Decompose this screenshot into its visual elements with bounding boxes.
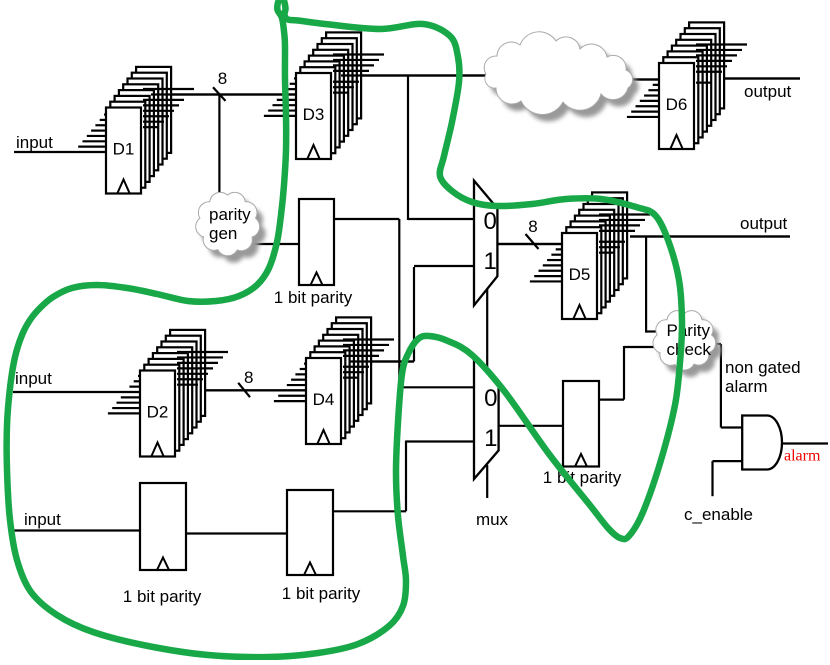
svg-text:1 bit parity: 1 bit parity — [543, 468, 622, 487]
svg-text:output: output — [740, 214, 788, 233]
svg-text:parity: parity — [209, 205, 251, 224]
svg-text:alarm: alarm — [784, 448, 821, 465]
svg-text:1 bit parity: 1 bit parity — [123, 587, 202, 606]
svg-text:output: output — [744, 82, 792, 101]
svg-text:input: input — [24, 510, 61, 529]
svg-text:D3: D3 — [303, 105, 325, 124]
svg-text:c_enable: c_enable — [684, 505, 753, 524]
svg-text:gen: gen — [209, 224, 237, 243]
svg-text:D1: D1 — [113, 140, 135, 159]
svg-text:1 bit parity: 1 bit parity — [282, 584, 361, 603]
svg-text:check: check — [667, 340, 712, 359]
svg-text:8: 8 — [244, 368, 253, 387]
svg-text:1: 1 — [484, 248, 497, 275]
svg-text:input: input — [15, 369, 52, 388]
svg-text:8: 8 — [528, 217, 537, 236]
svg-text:Parity: Parity — [667, 321, 711, 340]
svg-text:D6: D6 — [666, 95, 688, 114]
svg-text:1: 1 — [484, 425, 497, 452]
svg-text:alarm: alarm — [725, 377, 768, 396]
svg-text:input: input — [16, 133, 53, 152]
svg-text:non gated: non gated — [725, 358, 801, 377]
svg-text:1 bit parity: 1 bit parity — [274, 288, 353, 307]
svg-text:0: 0 — [484, 385, 497, 412]
svg-text:8: 8 — [218, 69, 227, 88]
svg-text:D5: D5 — [569, 265, 591, 284]
svg-text:0: 0 — [484, 208, 497, 235]
svg-text:D2: D2 — [147, 403, 169, 422]
svg-text:mux: mux — [476, 510, 509, 529]
svg-text:D4: D4 — [313, 390, 335, 409]
